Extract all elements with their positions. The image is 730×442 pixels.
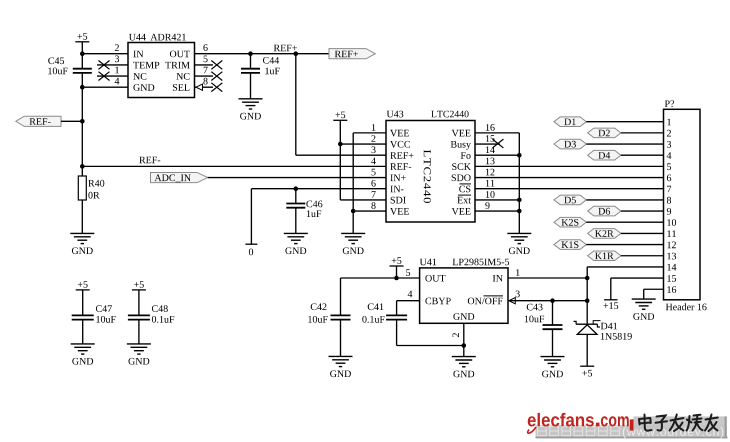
- P? pin number 14: [667, 264, 676, 271]
- logo chinese characters 电子发烧友 (drawn strokes): [639, 415, 718, 432]
- logo watermark text: [538, 427, 620, 436]
- U43 part name LTC2440 (vertical): [424, 150, 431, 203]
- wire: [295, 54, 297, 156]
- wire: [340, 278, 342, 315]
- regulator U41 body: [420, 268, 508, 323]
- wire: [82, 320, 84, 344]
- wire: [250, 54, 252, 69]
- P? pin number 12: [667, 242, 676, 249]
- P? designator: [665, 100, 674, 107]
- wire: [586, 244, 663, 246]
- U44 pin number 8: [203, 78, 207, 85]
- wire: [475, 199, 519, 201]
- wire: [586, 334, 588, 366]
- wire: [508, 300, 587, 302]
- power +5 (U43 supply): [333, 112, 347, 121]
- P? pin number 1: [667, 119, 671, 126]
- capacitor C47: [72, 315, 94, 319]
- port K1S: [554, 240, 586, 250]
- capacitor C42 label: [308, 303, 327, 322]
- capacitor C45 label: [48, 57, 67, 74]
- junction (D41 tap): [585, 298, 590, 303]
- wire: [340, 199, 386, 201]
- port K1R: [588, 251, 621, 261]
- wire: [195, 53, 330, 55]
- P? pin number 7: [667, 186, 671, 193]
- capacitor C48 label: [152, 305, 174, 323]
- net label REF+: [274, 45, 297, 52]
- U44 pin number 2: [115, 44, 119, 51]
- junction (VCC tap): [338, 142, 343, 147]
- wire: [138, 320, 140, 344]
- U41 pin number 4: [408, 291, 413, 298]
- wire: [82, 290, 84, 316]
- U44 pin number 4: [115, 78, 120, 85]
- U41 pin name OUT: [425, 275, 445, 282]
- wire: [61, 120, 82, 122]
- port REF-: [16, 116, 61, 126]
- wire: [475, 210, 519, 212]
- U43 pin number 2: [371, 135, 375, 142]
- wire: [463, 323, 465, 356]
- wire: [353, 132, 386, 134]
- U44 pin number 3: [115, 56, 119, 63]
- wire: [552, 301, 554, 325]
- U43 pin number 11: [486, 180, 495, 187]
- wire: [296, 154, 386, 156]
- U43 pin number 10: [486, 191, 495, 198]
- U41 pin name IN: [493, 275, 503, 282]
- power +5 (C47): [76, 281, 90, 290]
- U43 pin number 8: [371, 202, 375, 209]
- wire: [81, 73, 83, 176]
- diode D41 triangle: [577, 325, 597, 335]
- junction (U44 pin4 / GND net): [80, 85, 85, 90]
- P? pin number 9: [667, 208, 671, 215]
- D41 value 1N5819: [601, 333, 632, 340]
- wire: [352, 133, 354, 234]
- wire: [644, 288, 664, 290]
- junction (REF- row): [80, 164, 85, 169]
- junction (C43 tap): [550, 298, 555, 303]
- U43 pin name VEE (pin 8): [390, 208, 409, 215]
- U43 pin name VEE (pin 16): [452, 130, 471, 137]
- wire: [81, 42, 83, 69]
- U43 pin number 13: [486, 158, 495, 165]
- capacitor C47 label: [96, 305, 116, 322]
- R40 value 0R: [88, 192, 99, 199]
- ground (U43 right VEE): [507, 233, 531, 254]
- U43 pin number 5: [372, 169, 376, 176]
- U44 pin name NC (right): [176, 73, 189, 80]
- U43 pin number 14: [486, 146, 495, 153]
- capacitor C45: [73, 69, 92, 73]
- wire: [621, 232, 664, 234]
- no-connect X on U44 pin 3: [99, 61, 110, 70]
- power port 0: [245, 244, 257, 255]
- port D5: [554, 195, 586, 205]
- wire: [81, 200, 83, 233]
- junction (Fo to GND rail): [517, 153, 522, 158]
- wire: [475, 165, 664, 167]
- junction (pin9 VEE to GND rail): [517, 209, 522, 214]
- wire: [586, 221, 663, 223]
- U44 pin name TRIM: [165, 62, 190, 69]
- U44 pin number 5: [204, 56, 208, 63]
- wire (U44 pin5 stub): [195, 64, 214, 66]
- power +5 (U41 output): [390, 257, 404, 266]
- capacitor C46 label: [306, 201, 322, 218]
- U44 pin name OUT: [170, 51, 190, 58]
- op-amp/ADC U43 body: [386, 121, 475, 223]
- port D4: [588, 150, 621, 160]
- port K2R: [588, 229, 621, 239]
- wire: [251, 188, 386, 190]
- capacitor C42: [331, 315, 351, 319]
- no-connect X on U44 pin 5: [211, 61, 222, 70]
- wire: [397, 345, 464, 347]
- U43 pin name CS (pin 11): [459, 184, 471, 192]
- U43 pin name VCC (pin 2): [390, 141, 410, 148]
- junction (REF+ drop): [294, 51, 299, 56]
- U44 pin number 6: [203, 44, 207, 51]
- wire: [82, 165, 386, 167]
- wire: [611, 277, 664, 279]
- U43 pin name Fo (pin 14): [461, 152, 471, 159]
- connector P? body: [664, 109, 701, 299]
- P? pin number 15: [667, 275, 676, 282]
- U43 pin number 6: [371, 180, 375, 187]
- wire: [82, 53, 128, 55]
- port D1: [554, 117, 586, 127]
- junction (U41 GND node): [462, 343, 467, 348]
- wire: [396, 320, 398, 346]
- wire (U44 pin1 stub): [97, 75, 128, 77]
- U41 pin name GND: [453, 313, 474, 320]
- wire (U43 pin15 stub): [475, 143, 500, 145]
- ground (C43): [541, 357, 565, 378]
- U43 pin name SDO (pin 12): [452, 174, 471, 181]
- P? pin number 4: [667, 152, 672, 159]
- U41 pin number 5: [406, 269, 410, 276]
- U43 pin number 15: [486, 135, 495, 142]
- power +15: [604, 300, 619, 309]
- junction (Ext to GND rail): [517, 198, 522, 203]
- ground (C44): [239, 99, 263, 120]
- U44 pin name SEL: [173, 84, 190, 91]
- P? pin number 2: [667, 130, 671, 137]
- U41 pin name ON/OFF: [468, 296, 503, 304]
- U43 pin number 7: [372, 191, 376, 198]
- junction (IN / header14): [585, 276, 590, 281]
- U44 pin number 7: [204, 67, 208, 74]
- P? pin number 16: [667, 286, 676, 293]
- P? pin number 11: [667, 230, 676, 237]
- U43 pin name VEE (pin 9): [452, 208, 471, 215]
- U44 pin name NC (left): [133, 73, 146, 80]
- U44 pin8 input arrow: [196, 84, 203, 90]
- power +5 (C48): [132, 281, 146, 290]
- wire: [339, 120, 341, 200]
- U43 pin name REF+ (pin 3): [390, 152, 413, 159]
- capacitor C44 label: [263, 57, 280, 74]
- wire: [586, 278, 588, 324]
- U43 pin name IN- (pin 6): [390, 186, 403, 193]
- junction (C46 tap): [294, 186, 299, 191]
- P? pin number 3: [667, 141, 671, 148]
- wire (U44 pin8 stub): [195, 86, 214, 88]
- capacitor C48: [128, 315, 150, 319]
- U43 pin number 12: [486, 169, 495, 176]
- U43 pin name Busy (pin 15): [451, 141, 471, 150]
- capacitor C41: [386, 315, 407, 319]
- U43 pin name IN+ (pin 5): [390, 175, 405, 182]
- logo elecfans.com red text: [528, 413, 634, 433]
- wire: [587, 266, 663, 268]
- wire: [341, 277, 420, 279]
- wire: [295, 189, 297, 204]
- U43 designator: [387, 111, 404, 118]
- ground (U43 left VEE): [341, 233, 365, 254]
- U44 pin number 1: [115, 67, 119, 74]
- U41 pin3 input arrow: [509, 298, 516, 304]
- P? pin number 5: [667, 163, 671, 170]
- port K2S: [554, 217, 586, 227]
- capacitor C44: [241, 69, 260, 73]
- ground (C47): [71, 344, 95, 365]
- logo watermark bar: [536, 425, 727, 437]
- wire (U44 pin3 stub): [97, 64, 128, 66]
- wire: [621, 154, 664, 156]
- wire: [396, 266, 398, 278]
- U41 designator: [420, 259, 436, 266]
- power +5 (U44 supply): [75, 33, 89, 42]
- wire (U44 pin7 stub): [195, 75, 214, 77]
- U43 pin number 3: [372, 146, 376, 153]
- wire: [340, 143, 386, 145]
- port D2: [588, 128, 621, 138]
- power +5 (below D41): [580, 366, 594, 376]
- U43 pin number 4: [371, 158, 376, 165]
- ground (C42): [329, 356, 353, 377]
- U44 pin name GND: [133, 84, 154, 91]
- junction (C44 tap): [248, 51, 253, 56]
- P? pin number 8: [667, 197, 671, 204]
- wire: [643, 289, 645, 299]
- wire: [508, 277, 587, 279]
- wire: [250, 189, 252, 244]
- wire: [621, 132, 664, 134]
- U44 part value ADR421: [150, 34, 185, 41]
- junction (U43 pin8 VEE): [351, 209, 356, 214]
- wire: [250, 73, 252, 99]
- U44 pin name TEMP: [133, 62, 159, 69]
- wire: [518, 133, 520, 234]
- ground (U41 pin2): [452, 357, 476, 378]
- wire: [610, 278, 612, 300]
- U43 pin number 16: [486, 124, 495, 131]
- wire: [475, 154, 519, 156]
- U41 pin name CBYP: [425, 298, 450, 305]
- capacitor C43 label: [525, 304, 544, 323]
- port REF+: [329, 49, 375, 59]
- no-connect X on U44 pin 1: [99, 72, 110, 81]
- elecfans.com logo block: [528, 413, 728, 439]
- wire: [353, 210, 386, 212]
- wire: [586, 199, 663, 201]
- wire: [586, 267, 588, 278]
- U43 pin number 9: [485, 202, 489, 209]
- U43 pin name SDI (pin 7): [391, 197, 406, 204]
- wire: [208, 177, 386, 179]
- wire: [82, 86, 128, 88]
- wire: [340, 320, 342, 357]
- P? value Header 16: [666, 303, 707, 310]
- diode D41 cathode bar: [574, 321, 600, 327]
- U41 pin number 2 (rotated): [452, 333, 459, 337]
- ground (header pin16): [632, 299, 656, 320]
- wire: [475, 177, 664, 179]
- P? pin number 10: [667, 219, 676, 226]
- R40 designator: [88, 180, 104, 187]
- wire: [138, 290, 140, 316]
- U44 designator: [129, 34, 146, 41]
- U41 pin number 1: [516, 269, 520, 276]
- ground (C46): [284, 233, 308, 254]
- P? pin number 6: [667, 175, 671, 182]
- U41 part value LP2985IM5-5: [453, 259, 510, 266]
- U43 pin number 1: [372, 124, 376, 131]
- IC U44 body: [128, 43, 195, 98]
- U43 pin name REF- (pin 4): [390, 163, 411, 170]
- U43 part name LTC2440 (title): [431, 111, 468, 118]
- U44 pin name IN: [133, 51, 143, 58]
- no-connect X on U44 pin 7: [211, 72, 222, 81]
- P? pin number 13: [667, 253, 676, 260]
- U43 pin name SCK (pin 13): [452, 163, 471, 170]
- wire: [586, 121, 663, 123]
- U43 pin name Ext (pin 10): [457, 195, 471, 203]
- capacitor C41 label: [362, 303, 384, 322]
- capacitor C43: [543, 325, 563, 329]
- resistor R40 body: [78, 176, 86, 200]
- wire: [295, 208, 297, 234]
- port ADC_IN: [151, 172, 208, 182]
- U41 pin number 3: [516, 291, 520, 298]
- junction (REF- port): [80, 119, 85, 124]
- ground (C48): [127, 344, 151, 365]
- wire: [397, 300, 420, 302]
- no-connect X on U43 pin 15 Busy: [492, 139, 503, 148]
- wire: [475, 188, 664, 190]
- wire: [475, 132, 519, 134]
- junction (U44 pin2 / +5): [80, 51, 85, 56]
- wire: [396, 301, 398, 316]
- D41 designator: [601, 323, 617, 330]
- wire: [621, 210, 664, 212]
- wire: [586, 143, 663, 145]
- capacitor C46: [286, 204, 305, 208]
- port D3: [554, 139, 586, 149]
- port D6: [588, 206, 621, 216]
- D41 label pointer: [593, 321, 600, 324]
- U43 pin name VEE (pin 1): [390, 130, 409, 137]
- no-connect X on U44 pin 8: [211, 83, 222, 92]
- wire: [552, 329, 554, 356]
- logo gray band behind chinese characters: [634, 416, 727, 437]
- net label REF-: [139, 157, 160, 164]
- wire: [621, 255, 664, 257]
- junction (OUT/+5): [394, 276, 399, 281]
- ground (R40): [70, 233, 94, 254]
